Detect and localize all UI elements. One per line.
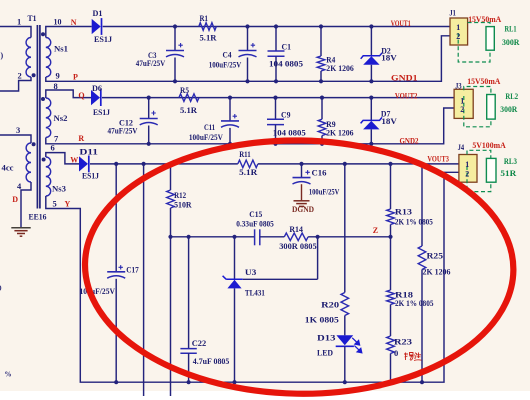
- svg-text:15V50mA: 15V50mA: [468, 15, 501, 24]
- svg-text:GND2: GND2: [400, 136, 419, 145]
- svg-text:T1: T1: [28, 13, 37, 23]
- svg-text:VOUT2: VOUT2: [395, 91, 418, 100]
- svg-text:P: P: [73, 73, 78, 82]
- svg-text:300R 0805: 300R 0805: [279, 241, 317, 251]
- svg-text:Z: Z: [373, 226, 378, 235]
- svg-text:Y: Y: [65, 200, 71, 209]
- svg-text:J1: J1: [449, 7, 456, 17]
- svg-text:100uF/25V: 100uF/25V: [209, 60, 242, 70]
- svg-text:2: 2: [465, 169, 469, 178]
- svg-text:5.1R: 5.1R: [180, 105, 198, 115]
- svg-text:2: 2: [18, 71, 22, 81]
- svg-text:R23: R23: [394, 337, 412, 347]
- svg-text:C22: C22: [192, 338, 207, 348]
- svg-text:2: 2: [460, 105, 464, 114]
- svg-text:2K 1206: 2K 1206: [326, 63, 354, 73]
- svg-text:%: %: [5, 371, 12, 379]
- svg-text:ES1J: ES1J: [93, 107, 111, 117]
- svg-text:C16: C16: [312, 168, 327, 178]
- svg-text:Q: Q: [78, 91, 84, 100]
- svg-text:R25: R25: [427, 251, 444, 261]
- svg-text:EE16: EE16: [29, 212, 47, 222]
- svg-text:D: D: [12, 195, 18, 204]
- svg-text:5V100mA: 5V100mA: [472, 141, 506, 150]
- svg-text:47uF/25V: 47uF/25V: [136, 58, 166, 68]
- svg-text:1: 1: [456, 23, 460, 32]
- svg-text:VOUT1: VOUT1: [391, 19, 411, 28]
- svg-text:R12: R12: [174, 190, 186, 200]
- svg-text:C17: C17: [126, 265, 139, 275]
- svg-text:DGND: DGND: [292, 205, 314, 214]
- svg-text:Ns3: Ns3: [52, 184, 66, 194]
- svg-text:C4: C4: [223, 50, 233, 60]
- svg-text:100uF/25V: 100uF/25V: [309, 187, 340, 197]
- svg-text:2K 1% 0805: 2K 1% 0805: [395, 298, 434, 308]
- svg-text:TL431: TL431: [245, 288, 265, 298]
- svg-text:300R: 300R: [500, 104, 518, 114]
- svg-text:ES1J: ES1J: [82, 171, 100, 181]
- svg-text:Ns2: Ns2: [54, 113, 68, 123]
- svg-text:R13: R13: [395, 207, 412, 217]
- svg-text:C1: C1: [282, 42, 292, 52]
- svg-text:10: 10: [54, 17, 62, 27]
- svg-text:C11: C11: [204, 122, 215, 132]
- svg-text:4cc: 4cc: [2, 164, 14, 173]
- svg-text:R5: R5: [180, 85, 189, 95]
- svg-text:5.1R: 5.1R: [239, 167, 258, 177]
- svg-text:0: 0: [394, 348, 398, 358]
- svg-text:8: 8: [54, 81, 58, 91]
- svg-text:104 0805: 104 0805: [269, 59, 303, 69]
- svg-text:2K 1206: 2K 1206: [423, 267, 451, 277]
- svg-text:W: W: [70, 156, 78, 165]
- svg-text:D11: D11: [79, 147, 98, 157]
- svg-text:51R: 51R: [500, 168, 517, 178]
- svg-text:J4: J4: [458, 142, 465, 152]
- svg-text:0.33uF 0805: 0.33uF 0805: [236, 219, 273, 229]
- svg-text:R20: R20: [321, 300, 339, 310]
- svg-text:): ): [1, 51, 4, 60]
- svg-text:VOUT3: VOUT3: [427, 155, 449, 164]
- svg-text:RL2: RL2: [505, 91, 518, 101]
- svg-text:C9: C9: [281, 110, 291, 120]
- svg-text:J3: J3: [455, 81, 462, 91]
- svg-text:18V: 18V: [381, 116, 397, 126]
- svg-text:510R: 510R: [174, 200, 192, 210]
- svg-text:D1: D1: [93, 8, 103, 18]
- svg-text:N: N: [71, 18, 77, 27]
- svg-text:R1: R1: [200, 13, 209, 23]
- svg-text:1: 1: [465, 160, 469, 169]
- svg-text:5.1R: 5.1R: [200, 33, 218, 43]
- svg-text:6: 6: [51, 143, 55, 153]
- svg-text:1K 0805: 1K 0805: [305, 315, 339, 325]
- svg-text:R: R: [78, 134, 84, 143]
- svg-text:300R: 300R: [502, 37, 520, 47]
- svg-text:RL1: RL1: [505, 24, 517, 34]
- svg-text:U3: U3: [245, 267, 257, 277]
- svg-text:R11: R11: [239, 149, 251, 159]
- svg-text:1: 1: [17, 17, 21, 27]
- svg-text:C15: C15: [249, 209, 262, 219]
- svg-text:2K 1206: 2K 1206: [326, 128, 354, 138]
- svg-text:R14: R14: [289, 224, 303, 234]
- svg-text:2K 1% 0805: 2K 1% 0805: [395, 217, 433, 227]
- svg-text:100uF/25V: 100uF/25V: [80, 286, 116, 296]
- svg-text:100uF/25V: 100uF/25V: [189, 132, 224, 142]
- svg-text:4.7uF 0805: 4.7uF 0805: [193, 356, 230, 366]
- svg-text:LED: LED: [317, 348, 333, 358]
- svg-text:15V50mA: 15V50mA: [467, 77, 500, 86]
- svg-text:9: 9: [56, 71, 60, 81]
- svg-text:104 0805: 104 0805: [273, 127, 306, 137]
- svg-text:GND1: GND1: [391, 73, 418, 82]
- svg-text:5: 5: [53, 199, 57, 209]
- svg-text:Ns1: Ns1: [54, 44, 68, 54]
- svg-text:2: 2: [456, 32, 460, 41]
- svg-text:D13: D13: [317, 333, 336, 343]
- svg-text:ES1J: ES1J: [94, 34, 113, 44]
- svg-text:3: 3: [16, 125, 20, 135]
- svg-text:D6: D6: [92, 83, 102, 93]
- svg-text:RL3: RL3: [504, 156, 517, 166]
- svg-text:47uF/25V: 47uF/25V: [108, 126, 139, 136]
- svg-text:18V: 18V: [381, 53, 397, 63]
